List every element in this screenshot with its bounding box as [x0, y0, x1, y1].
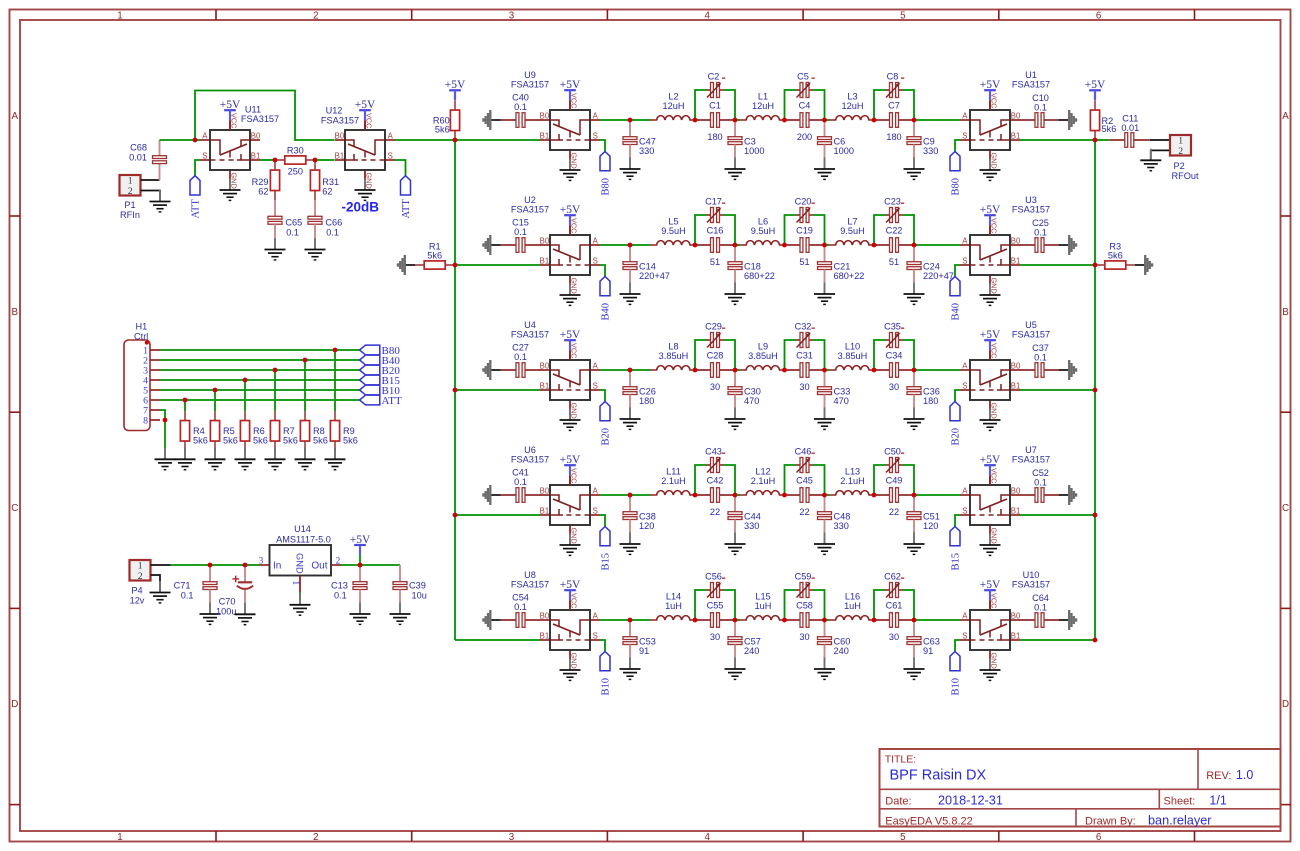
svg-text:ban.relayer: ban.relayer — [1148, 814, 1212, 828]
svg-text:EasyEDA V5.8.22: EasyEDA V5.8.22 — [885, 815, 972, 827]
svg-text:B10: B10 — [601, 678, 612, 696]
inductor L11 2.1uH — [650, 467, 695, 495]
svg-text:Date:: Date: — [885, 796, 911, 808]
junction row U9 x695 — [693, 118, 698, 123]
svg-text:C: C — [11, 503, 18, 514]
op-amp U2 FSA3157 switch — [511, 195, 600, 306]
svg-text:U7: U7 — [1025, 445, 1037, 455]
svg-text:680+22: 680+22 — [834, 271, 865, 281]
frame tick top 6 — [1194, 10, 1196, 21]
svg-text:2.1uH: 2.1uH — [661, 476, 686, 486]
svg-text:180: 180 — [639, 396, 654, 406]
terminator arrow row U4 input — [483, 360, 500, 380]
inductor L6 9.5uH — [740, 217, 785, 245]
wire junction to inductor 3 — [825, 244, 830, 246]
svg-text:GND: GND — [295, 553, 305, 574]
capacitor C58 30 (series) — [785, 601, 825, 642]
wire trimmer loop C62 — [874, 590, 914, 620]
frame tick bottom 6 — [1194, 831, 1196, 842]
capacitor C50 trimmer — [884, 446, 904, 472]
capacitor C51 120 (shunt) — [904, 495, 940, 554]
capacitor C48 330 (shunt) — [814, 495, 850, 554]
wire P1 pin1 to C68 (black) — [141, 179, 160, 181]
svg-text:U9: U9 — [524, 70, 536, 80]
wire trimmer loop C56 — [695, 590, 735, 620]
svg-text:C: C — [1282, 503, 1289, 514]
svg-text:0.1: 0.1 — [1034, 353, 1047, 363]
+5V power U8 — [560, 579, 581, 610]
wire drop to R4 — [184, 400, 186, 411]
svg-text:ATT: ATT — [401, 199, 412, 219]
svg-text:0.1: 0.1 — [514, 352, 527, 362]
capacitor C44 330 (shunt) — [725, 495, 761, 554]
junction row U8 x695 — [693, 618, 698, 623]
svg-text:100u: 100u — [216, 607, 236, 617]
wire node A loop up and over to U12.B0 — [195, 91, 335, 141]
svg-text:FSA3157: FSA3157 — [511, 455, 549, 465]
svg-text:1000: 1000 — [834, 146, 854, 156]
capacitor C36 180 (shunt) — [904, 370, 940, 429]
svg-text:3: 3 — [509, 10, 515, 21]
resistor R2 5k6 — [1090, 101, 1116, 141]
wire trimmer loop C8 — [874, 90, 914, 120]
capacitor C19 51 (series) — [785, 226, 825, 267]
op-amp U4 FSA3157 switch — [511, 320, 600, 431]
net flag B40 (H1) — [360, 355, 401, 367]
junction left bus y515 — [453, 513, 458, 518]
svg-text:A: A — [12, 111, 19, 122]
connector P1 — [120, 175, 141, 220]
svg-text:U11: U11 — [245, 104, 261, 114]
capacitor C38 120 (shunt) — [620, 495, 656, 554]
op-amp U7 FSA3157 switch — [960, 445, 1050, 556]
inductor L10 3.85uH — [829, 342, 874, 370]
svg-text:51: 51 — [710, 257, 720, 267]
svg-text:12uH: 12uH — [663, 101, 685, 111]
inductor L13 2.1uH — [829, 467, 874, 495]
svg-text:5k6: 5k6 — [193, 435, 208, 445]
svg-text:330: 330 — [923, 146, 938, 156]
capacitor C71 0.1 — [174, 565, 221, 624]
svg-text:FSA3157: FSA3157 — [511, 80, 549, 90]
svg-text:C50: C50 — [884, 446, 901, 456]
junction row U2 x784.5 — [782, 243, 787, 248]
+5V power U9 — [560, 79, 581, 110]
svg-text:B10: B10 — [951, 678, 962, 696]
capacitor C68 0.01 (series vertical) — [129, 140, 166, 180]
capacitor C3 1000 (shunt) — [725, 120, 765, 179]
wire U11.A stub connection — [195, 139, 200, 141]
op-amp U10 FSA3157 switch — [960, 570, 1050, 681]
wire left bus to U6.B1 — [455, 514, 540, 516]
wire trimmer loop C5 — [785, 90, 825, 120]
junction C18 node — [733, 243, 738, 248]
svg-text:C56: C56 — [705, 571, 722, 581]
inductor L9 3.85uH — [740, 342, 785, 370]
svg-text:1/1: 1/1 — [1209, 794, 1226, 808]
+5V power U1 — [980, 79, 1001, 110]
svg-text:FSA3157: FSA3157 — [1012, 205, 1050, 215]
terminator arrow row U3 output — [1059, 235, 1076, 255]
svg-text:5: 5 — [900, 10, 906, 21]
capacitor C61 30 (series) — [874, 601, 914, 642]
wire P4 pin1 to U14.In — [171, 564, 260, 566]
svg-text:C65: C65 — [285, 217, 302, 227]
svg-text:120: 120 — [923, 521, 938, 531]
resistor R4 5k6 — [180, 411, 207, 451]
frame tick bottom 4 — [802, 831, 804, 842]
svg-text:9.5uH: 9.5uH — [661, 226, 686, 236]
capacitor C56 trimmer — [705, 571, 725, 597]
svg-text:180: 180 — [707, 132, 722, 142]
wire trimmer loop C43 — [695, 465, 735, 495]
svg-text:2018-12-31: 2018-12-31 — [938, 794, 1003, 808]
frame tick bottom 2 — [411, 831, 413, 842]
wire U3.B1 to right bus — [1020, 264, 1095, 266]
op-amp U11 FSA3157 switch — [200, 104, 279, 200]
svg-text:B80: B80 — [601, 178, 612, 196]
svg-text:62: 62 — [322, 187, 332, 197]
svg-text:C64: C64 — [1032, 593, 1049, 603]
frame tick top 3 — [606, 10, 608, 21]
svg-text:U6: U6 — [524, 445, 536, 455]
capacitor C54 0.1 — [501, 593, 541, 628]
svg-text:FSA3157: FSA3157 — [1012, 330, 1050, 340]
terminator arrow row U10 output — [1059, 610, 1076, 630]
junction right bus y265 — [1093, 263, 1098, 268]
ground under R4 — [175, 448, 196, 470]
svg-text:120: 120 — [639, 521, 654, 531]
net flag ATT (U11) — [190, 176, 202, 219]
svg-text:FSA3157: FSA3157 — [1012, 580, 1050, 590]
capacitor C45 22 (series) — [785, 476, 825, 517]
net flag B15 (right) — [950, 527, 962, 571]
svg-text:5: 5 — [900, 832, 906, 843]
svg-text:0.1: 0.1 — [514, 102, 527, 112]
junction row U4 x784.5 — [782, 368, 787, 373]
junction C14 node — [628, 243, 633, 248]
+5V power U4 — [560, 329, 581, 360]
svg-text:C55: C55 — [707, 601, 724, 611]
svg-text:C62: C62 — [884, 571, 901, 581]
capacitor C41 0.1 — [501, 468, 541, 503]
svg-text:1: 1 — [117, 10, 122, 21]
wire last junction to U7.A — [914, 494, 960, 496]
capacitor C14 220+47 (shunt) — [620, 245, 670, 304]
svg-text:2.1uH: 2.1uH — [840, 476, 865, 486]
svg-text:C20: C20 — [795, 196, 812, 206]
frame tick bottom 3 — [606, 831, 608, 842]
capacitor C60 240 (shunt) — [814, 620, 850, 679]
capacitor C30 470 (shunt) — [725, 370, 761, 429]
svg-text:0.1: 0.1 — [1034, 228, 1047, 238]
junction C30 node — [733, 368, 738, 373]
svg-text:30: 30 — [799, 632, 809, 642]
wire left bus to U2.B1 — [455, 264, 540, 266]
svg-text:A: A — [1282, 111, 1289, 122]
resistor R7 5k6 — [270, 411, 297, 451]
junction right bus y640 — [1093, 638, 1098, 643]
svg-text:U5: U5 — [1025, 320, 1037, 330]
capacitor C7 180 (series) — [874, 101, 914, 142]
svg-text:C29: C29 — [705, 321, 722, 331]
svg-text:FSA3157: FSA3157 — [1012, 455, 1050, 465]
capacitor C62 trimmer — [884, 571, 904, 597]
inductor L14 1uH — [650, 592, 695, 620]
svg-text:C43: C43 — [705, 446, 722, 456]
junction H1 wire at R8 — [303, 358, 308, 363]
capacitor C21 680+22 (shunt) — [814, 245, 864, 304]
ground under C66 — [305, 238, 326, 260]
wire junction to inductor 3 — [825, 369, 830, 371]
wire U9.S to flag — [600, 140, 605, 151]
wire junction to inductor 1 — [630, 119, 650, 121]
junction H1 wire at R7 — [273, 368, 278, 373]
svg-text:AMS1117-5.0: AMS1117-5.0 — [276, 534, 331, 544]
+5V power U10 — [980, 579, 1001, 610]
ground at P2 pin2 — [1140, 149, 1161, 171]
capacitor C35 trimmer — [884, 321, 904, 347]
wire trimmer loop C59 — [785, 590, 825, 620]
op-amp U6 FSA3157 switch — [511, 445, 600, 556]
op-amp U3 FSA3157 switch — [960, 195, 1050, 306]
wire junction to inductor 2 — [735, 494, 740, 496]
svg-text:C13: C13 — [331, 580, 348, 590]
wire drop to R6 — [244, 380, 246, 411]
wire H1 pin 2 to net flag B40 — [160, 359, 360, 361]
wire drop to R8 — [304, 360, 306, 411]
wire P4 pin2 to ground (black) — [151, 575, 161, 592]
capacitor C20 trimmer — [795, 196, 815, 222]
junction H1 wire at R4 — [183, 398, 188, 403]
terminator arrow row U7 output — [1059, 485, 1076, 505]
inductor L8 3.85uH — [650, 342, 695, 370]
resistor R60 5k6 — [433, 101, 460, 141]
capacitor C2 trimmer — [707, 71, 726, 97]
net flag B20 (left) — [600, 402, 612, 446]
svg-text:5k6: 5k6 — [223, 435, 238, 445]
svg-text:U1: U1 — [1025, 70, 1037, 80]
frame tick left B — [10, 411, 21, 413]
svg-text:3.85uH: 3.85uH — [659, 351, 689, 361]
svg-text:C42: C42 — [707, 476, 724, 486]
svg-text:C5: C5 — [797, 71, 809, 81]
capacitor C33 470 (shunt) — [814, 370, 850, 429]
capacitor C15 0.1 — [501, 218, 541, 253]
svg-text:B: B — [12, 307, 19, 318]
svg-text:P2: P2 — [1174, 161, 1185, 171]
junction C44 node — [733, 493, 738, 498]
+5V power U6 — [560, 454, 581, 485]
svg-text:330: 330 — [744, 521, 759, 531]
capacitor C10 0.1 — [1020, 93, 1060, 127]
junction H1 wire at R9 — [333, 348, 338, 353]
wire U7.B1 to right bus — [1020, 514, 1095, 516]
terminator arrow row U8 input — [483, 610, 500, 630]
svg-text:R30: R30 — [287, 145, 304, 155]
ground under R8 — [295, 448, 316, 470]
junction C6 node — [822, 118, 827, 123]
wire last junction to U10.A — [914, 619, 960, 621]
wire H1 pin 3 to net flag B20 — [160, 369, 360, 371]
wire trimmer loop C50 — [874, 465, 914, 495]
svg-text:3: 3 — [259, 556, 264, 566]
wire junction to inductor 2 — [735, 119, 740, 121]
wire left bus to U4.B1 — [455, 389, 540, 391]
svg-text:240: 240 — [744, 646, 759, 656]
svg-text:30: 30 — [799, 382, 809, 392]
svg-text:62: 62 — [258, 187, 268, 197]
svg-text:9.5uH: 9.5uH — [840, 226, 865, 236]
frame tick right B — [1281, 411, 1292, 413]
wire junction to inductor 2 — [735, 369, 740, 371]
wire P4 pin1 (black) — [151, 564, 171, 566]
svg-text:C52: C52 — [1032, 468, 1049, 478]
resistor R30 250 — [276, 145, 316, 176]
junction C57 node — [733, 618, 738, 623]
junction C71 node — [208, 563, 213, 568]
junction C24 node — [912, 243, 917, 248]
junction C26 node — [628, 368, 633, 373]
svg-text:C7: C7 — [888, 101, 900, 111]
terminator arrow row U6 input — [483, 485, 500, 505]
wire trimmer loop C32 — [785, 340, 825, 370]
junction C48 node — [822, 493, 827, 498]
capacitor C22 51 (series) — [874, 226, 914, 267]
svg-text:C11: C11 — [1122, 113, 1138, 123]
junction row U6 x784.5 — [782, 493, 787, 498]
wire U5.S to flag — [955, 390, 960, 401]
junction row U4 x695 — [693, 368, 698, 373]
svg-text:0.1: 0.1 — [181, 590, 194, 600]
svg-text:2: 2 — [313, 10, 318, 21]
svg-text:0.1: 0.1 — [334, 590, 347, 600]
svg-text:TITLE:: TITLE: — [885, 754, 917, 766]
op-amp U12 FSA3157 switch — [321, 105, 395, 200]
svg-text:5k6: 5k6 — [253, 435, 268, 445]
wire trimmer loop C29 — [695, 340, 735, 370]
capacitor C53 91 (shunt) — [620, 620, 656, 679]
wire U5.B1 to right bus — [1020, 389, 1095, 391]
frame tick top 2 — [411, 10, 413, 21]
svg-text:U12: U12 — [326, 105, 343, 115]
capacitor C34 30 (series) — [874, 351, 914, 392]
junction C9 node — [912, 118, 917, 123]
capacitor C4 200 (series) — [785, 101, 825, 142]
capacitor C6 1000 (shunt) — [814, 120, 854, 179]
svg-text:B: B — [1282, 307, 1289, 318]
svg-text:B20: B20 — [951, 428, 962, 446]
svg-text:U10: U10 — [1023, 570, 1040, 580]
svg-text:C8: C8 — [887, 71, 899, 81]
svg-text:0.01: 0.01 — [1121, 123, 1139, 133]
svg-text:10u: 10u — [412, 590, 427, 600]
svg-text:In: In — [273, 561, 281, 572]
svg-text:Out: Out — [311, 561, 327, 572]
junction right bus y515 — [1093, 513, 1098, 518]
junction +5V out node — [358, 563, 363, 568]
svg-text:30: 30 — [710, 632, 720, 642]
capacitor C8 trimmer — [886, 71, 905, 97]
svg-text:C41: C41 — [512, 468, 529, 478]
svg-text:0.1: 0.1 — [1034, 603, 1047, 613]
svg-text:200: 200 — [797, 132, 812, 142]
wire U9.A to first junction — [600, 119, 630, 121]
junction C36 node — [912, 368, 917, 373]
junction right bus y390 — [1093, 388, 1098, 393]
svg-text:1uH: 1uH — [755, 601, 772, 611]
wire trimmer loop C23 — [874, 215, 914, 245]
net flag B80 (H1) — [360, 345, 401, 357]
svg-text:2: 2 — [313, 832, 318, 843]
svg-text:BPF Raisin DX: BPF Raisin DX — [890, 767, 987, 783]
ground at U14 GND — [290, 593, 311, 615]
junction C63 node — [912, 618, 917, 623]
svg-text:5k6: 5k6 — [435, 125, 450, 135]
junction H1 wire at R6 — [243, 378, 248, 383]
junction row U8 x874 — [872, 618, 877, 623]
ground at P4 pin2 — [150, 581, 171, 603]
svg-text:C16: C16 — [707, 226, 724, 236]
svg-text:B20: B20 — [601, 428, 612, 446]
wire junction to inductor 3 — [825, 619, 830, 621]
capacitor C26 180 (shunt) — [620, 370, 656, 429]
svg-text:0.1: 0.1 — [1034, 478, 1047, 488]
wire drop to R7 — [274, 370, 276, 411]
svg-text:ATT: ATT — [382, 395, 402, 407]
svg-text:B15: B15 — [601, 553, 612, 571]
svg-text:C10: C10 — [1032, 93, 1049, 103]
net flag B15 (H1) — [360, 375, 401, 387]
svg-text:220+47: 220+47 — [923, 271, 954, 281]
svg-text:B40: B40 — [951, 303, 962, 321]
svg-text:30: 30 — [889, 382, 899, 392]
frame tick left D — [10, 804, 21, 806]
svg-text:0.1: 0.1 — [286, 227, 299, 237]
svg-text:C25: C25 — [1032, 218, 1049, 228]
svg-text:5k6: 5k6 — [1102, 124, 1117, 134]
net flag B15 (left) — [600, 527, 612, 571]
capacitor C18 680+22 (shunt) — [725, 245, 775, 304]
svg-text:C17: C17 — [705, 196, 722, 206]
svg-text:FSA3157: FSA3157 — [241, 114, 279, 124]
wire junction to inductor 1 — [630, 494, 650, 496]
svg-text:5k6: 5k6 — [283, 435, 298, 445]
junction left bus y390 — [453, 388, 458, 393]
regulator U14 AMS1117-5.0 — [259, 524, 341, 600]
junction row U2 x695 — [693, 243, 698, 248]
capacitor C13 0.1 — [331, 565, 370, 624]
junction C70 node — [243, 563, 248, 568]
ground under C70 — [235, 603, 256, 625]
capacitor C31 30 (series) — [785, 351, 825, 392]
frame tick bottom 5 — [998, 831, 1000, 842]
junction R31 node — [313, 158, 318, 163]
wire node A: C68 top to U11.A junction — [160, 139, 196, 141]
svg-text:1uH: 1uH — [844, 601, 861, 611]
svg-text:470: 470 — [744, 396, 759, 406]
ground under R5 — [205, 448, 226, 470]
net flag B80 (right) — [950, 152, 962, 196]
svg-text:2.1uH: 2.1uH — [751, 476, 776, 486]
svg-text:C37: C37 — [1032, 343, 1049, 353]
svg-text:6: 6 — [1096, 832, 1102, 843]
terminator arrow at R3 — [1135, 255, 1152, 275]
wire up to +5V — [359, 555, 361, 565]
ground under R9 — [325, 448, 346, 470]
wire left bus to U8.B1 — [455, 639, 540, 641]
svg-text:-20dB: -20dB — [342, 199, 380, 214]
